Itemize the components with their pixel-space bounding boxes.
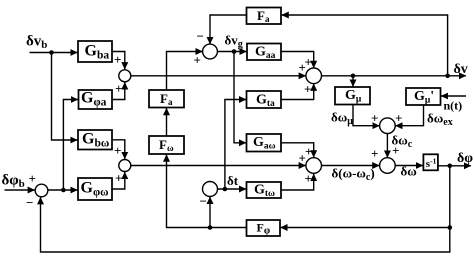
wire: summer S1 output to summer S3 [131, 75, 306, 77]
wire: G_tw output to summer S5 [281, 174, 314, 190]
block F_a top [247, 8, 282, 25]
block G_bw [78, 130, 112, 150]
svg-text:+: + [392, 143, 399, 158]
svg-text:+: + [371, 146, 378, 161]
svg-text:+: + [114, 143, 121, 158]
block G_tw [247, 182, 282, 198]
svg-text:+: + [114, 52, 121, 67]
wire: delta-phi feedback down, bottom run, up into summer S9 [41, 166, 450, 252]
block F_w [149, 136, 184, 154]
svg-text:Gμ': Gμ' [414, 89, 434, 106]
svg-text:+: + [395, 111, 402, 126]
wire: G_aw output to summer S5 [281, 143, 314, 158]
wire: summer S2 output to summer S5 [131, 165, 306, 167]
svg-text:n(t): n(t) [444, 99, 463, 113]
block G_phiw [78, 178, 112, 200]
wire: delta-phi_b branch up to G_phia [63, 100, 78, 191]
block F_phi [247, 220, 281, 236]
summer S3 [306, 68, 322, 84]
wire: summer S7 output to s-1 [395, 165, 423, 167]
block s^-1 [423, 154, 438, 170]
wire: delta-t summer output to G_tw [217, 188, 246, 190]
wire: G_ba output to summer S1 [112, 52, 125, 70]
node: delta-t tap junction on F_phi output [208, 225, 213, 230]
wire: G_bw output to summer S2 [112, 140, 125, 159]
summer S8 delta-t [203, 182, 218, 197]
wire: F_a mid output up and to summer S4 [167, 52, 203, 91]
summer S1 [119, 70, 131, 82]
svg-text:+: + [115, 81, 122, 96]
svg-text:−: − [197, 29, 204, 44]
svg-text:δt: δt [227, 173, 239, 188]
wire: delta-v_b branch down to G_bw [52, 53, 78, 141]
wire: G_mu output to summer S6 [353, 105, 380, 126]
wire: G_mu' output to summer S6 [395, 105, 423, 126]
summer S5 [306, 158, 322, 174]
wire: G_aa output to summer S3 [281, 52, 314, 68]
wire: G_phia output to summer S1 [112, 82, 125, 99]
node: delta-v_b branch [49, 50, 54, 55]
wire: summer S9 output to G_phiw [48, 189, 78, 191]
node: F_phi tap junction [448, 225, 453, 230]
block G_mu prime [406, 88, 441, 105]
block F_a mid [149, 90, 184, 108]
wire: summer S5 output to summer S7 [321, 165, 379, 167]
wire: delta-t branch up to G_ta [225, 100, 246, 190]
summer S7 [380, 158, 396, 174]
svg-text:+: + [29, 171, 36, 186]
node: delta-v feedback tap [445, 74, 450, 79]
block G_ba [78, 41, 112, 62]
svg-text:+: + [305, 171, 312, 186]
block G_mu [335, 87, 370, 105]
node: delta-phi_b branch [61, 188, 66, 193]
summer S4 delta-v_g [203, 44, 218, 59]
wire: F_phi output left and up to F_w [167, 155, 247, 228]
wire: delta-v_b input to G_ba [30, 52, 78, 54]
svg-text:δω: δω [401, 164, 417, 179]
wire: F_a top output to summer S4 [210, 15, 247, 44]
svg-text:+: + [115, 171, 122, 186]
svg-text:+: + [299, 60, 306, 75]
wire: delta-v_g branch down to G_aw [234, 52, 246, 143]
wire: summer S6 output to summer S7 [386, 133, 388, 157]
node: delta-phi feedback tap [448, 164, 453, 169]
wire: summer S4 output to G_aa [217, 51, 247, 53]
summer S9 delta-phi_b [35, 184, 48, 197]
summer S6 [380, 118, 396, 134]
wire: feedback into F_phi [280, 227, 449, 229]
wire: delta-v feedback to F_a top [282, 15, 448, 76]
wire: F_w output up into F_a mid [166, 108, 168, 136]
wire: summer S3 output to delta-v out [321, 75, 466, 77]
wire: delta-phi_b input to summer S9 [5, 189, 35, 191]
block G_ta [247, 91, 282, 108]
svg-text:+: + [304, 82, 311, 97]
svg-text:+: + [194, 53, 201, 68]
svg-text:+: + [299, 151, 306, 166]
block G_phia [79, 90, 113, 109]
wire: G_phiw output to summer S2 [112, 172, 125, 189]
wire: s-1 output to delta-phi out [438, 165, 471, 167]
block G_aa [247, 44, 281, 61]
svg-text:δv: δv [454, 62, 468, 77]
svg-text:−: − [26, 195, 33, 210]
svg-text:+: + [371, 111, 378, 126]
node: delta-v_g branch [232, 49, 237, 54]
wire: G_ta output to summer S3 [281, 84, 314, 100]
block G_aw [247, 134, 282, 152]
svg-text:−: − [200, 194, 207, 209]
svg-text:+: + [305, 144, 312, 159]
svg-text:δφ: δφ [457, 151, 473, 166]
wire: n(t) input to G_mu' [441, 95, 466, 97]
summer S2 [119, 160, 131, 172]
wire: tap down into G_mu [352, 76, 354, 87]
wire: tap up into delta-t summer [209, 197, 211, 228]
node: G_mu tap [351, 74, 356, 79]
node: delta-t branch [223, 187, 228, 192]
